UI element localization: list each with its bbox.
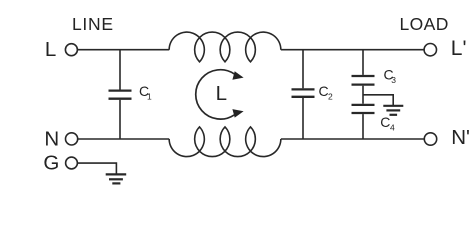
svg-text:G: G <box>43 152 59 175</box>
svg-text:2: 2 <box>328 92 333 102</box>
wire C3-C4 junction to earth <box>363 95 393 105</box>
wire G-terminal to earth <box>77 163 116 173</box>
svg-text:L: L <box>45 38 56 61</box>
svg-text:N': N' <box>451 126 470 149</box>
ground (right earth symbol) <box>383 106 403 115</box>
svg-text:L': L' <box>451 37 467 60</box>
svg-text:1: 1 <box>147 91 152 101</box>
svg-text:LOAD: LOAD <box>400 14 449 34</box>
inductor choke bottom winding <box>169 127 281 157</box>
terminal L' <box>424 37 466 60</box>
svg-text:L: L <box>216 82 227 105</box>
terminal G <box>43 152 77 175</box>
capacitor C4 <box>352 105 396 139</box>
wire L-terminal to choke <box>77 49 169 51</box>
terminal L <box>45 38 78 61</box>
wire choke to N'-terminal <box>281 138 424 140</box>
terminal N' <box>424 126 470 149</box>
svg-text:LINE: LINE <box>72 14 114 34</box>
svg-text:4: 4 <box>390 123 395 133</box>
ground (left earth symbol) <box>106 174 127 183</box>
terminal N <box>44 128 77 151</box>
choke flux arrow <box>196 70 244 119</box>
svg-text:3: 3 <box>391 75 396 85</box>
wire choke to L'-terminal <box>281 49 424 51</box>
svg-text:N: N <box>44 128 59 151</box>
svg-text:C: C <box>380 114 390 130</box>
wire N-terminal to choke <box>78 138 170 140</box>
capacitor C1 <box>109 50 153 139</box>
capacitor C3 <box>352 50 397 104</box>
capacitor C2 <box>292 50 334 139</box>
inductor choke top winding <box>169 32 281 62</box>
